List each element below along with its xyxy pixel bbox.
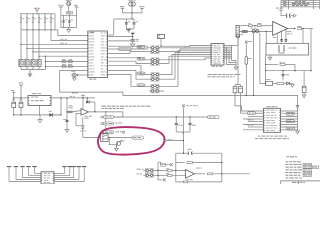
wire hang lead 2 (189, 117, 191, 123)
ROM table row 2 (286, 164, 289, 165)
junction opamp vcc (82, 97, 83, 98)
wire IC2 right pin 4 (224, 50, 232, 52)
junction sig row6 (38, 56, 39, 57)
label C7 (63, 118, 66, 121)
net flag CN-R3 (72, 166, 76, 168)
capacitor CE2 electrolytic (19, 102, 23, 107)
wire IC3 left pin 6 (243, 124, 264, 126)
label key row 2a (62, 63, 66, 66)
wire avdd left branch (113, 19, 115, 35)
junction bus b (294, 70, 295, 71)
resistor R4 pull-up (38, 17, 40, 22)
net label small box (161, 163, 166, 166)
wire low chain4 (289, 82, 292, 84)
net label inside circle (132, 136, 144, 139)
junction rail minus (66, 111, 67, 112)
label rail top (70, 95, 73, 98)
diode D3 small (81, 126, 84, 129)
wire IC3 feed A (235, 96, 264, 112)
label U5 (196, 167, 200, 170)
wire pad out r4 (161, 58, 211, 60)
wire out2 right drop (310, 29, 312, 71)
wire pull-up drop 4 (38, 14, 40, 17)
label amp supply (186, 104, 188, 107)
net label IC3 out1 (286, 112, 295, 115)
jumper pads JP8 (151, 89, 159, 93)
wire e-cap lower 2 (20, 108, 22, 115)
wire q1 branch (109, 138, 116, 145)
wire into j3 (83, 137, 101, 139)
net label pad row 3 (137, 72, 145, 75)
wire flagB stem (76, 9, 78, 15)
capacitor C below u6 b (280, 39, 283, 41)
IC3 driver (264, 108, 281, 132)
wire top conn link (160, 39, 162, 47)
wire zener top (87, 98, 89, 101)
wire diode left (45, 114, 49, 116)
heading ROM Versions (287, 156, 289, 157)
wire cap to gnd arrow (291, 15, 294, 17)
wire ce-b upper 1 (234, 85, 236, 87)
wire avdd to MCU pin (108, 34, 114, 36)
wire j5 drop (237, 37, 239, 85)
wire e-cap lead 1 (13, 98, 15, 102)
ground arrow right (294, 14, 297, 17)
wire IC2 right bundle c (232, 45, 237, 60)
wire minus input (67, 111, 72, 113)
value label R3 (34, 17, 36, 20)
wire pad out r1 (161, 44, 211, 47)
net label TP-far (208, 116, 220, 119)
wire flag vref stem (141, 11, 143, 13)
value label R4 (40, 17, 42, 20)
wire output riser x61 (60, 98, 62, 115)
wire switch column 3 (32, 22, 34, 59)
junction 158 a (157, 170, 158, 171)
arrow mark Q1 (120, 141, 122, 143)
ground buzzer (72, 78, 76, 81)
wire vert 245 (245, 43, 247, 56)
wire vert 245 low (245, 64, 247, 95)
wire cap lead lower 1 (63, 22, 65, 27)
wire cap loop right (76, 15, 78, 27)
power flag VCC top-left (35, 9, 39, 11)
value label R2 (28, 17, 30, 20)
ground q1 (115, 148, 119, 151)
junction avss (132, 36, 133, 37)
wire vert 253 (253, 33, 255, 96)
wire IC3 left pin 4 (243, 118, 264, 120)
junction amp out (221, 173, 222, 174)
label key row 1b (68, 58, 72, 61)
label IC3 left b (248, 124, 250, 127)
net label row2 (60, 38, 64, 41)
resistor R-out2 (298, 28, 302, 30)
junction q1 emitter (116, 145, 117, 146)
label osc right (137, 46, 141, 49)
wire ce-c lower (303, 93, 305, 95)
capacitor C2 vdd (68, 20, 70, 22)
jumper pads JPB1 (145, 169, 153, 173)
wire reg gnd pin (39, 106, 41, 115)
wire out to pill (105, 112, 107, 116)
voltage regulator U3 (28, 96, 51, 106)
junction q1 branch (109, 137, 110, 138)
resistor R-fb (187, 162, 193, 164)
jumper pads JP3 (151, 58, 159, 62)
wire avdd gnd drop (128, 28, 130, 31)
trimmer pair 2 (252, 29, 255, 32)
wire opt chain (266, 64, 278, 66)
title table top right (281, 0, 319, 1)
junction bus 5 (44, 13, 45, 14)
note main line1 (102, 106, 107, 107)
jumper pads JP2 (151, 50, 159, 54)
wire amp loop bottom2 (188, 181, 222, 183)
wire bus cap lower (282, 76, 284, 80)
label OPT (289, 48, 292, 49)
resistor R-comp (68, 111, 72, 113)
net label pad row 1 (137, 45, 145, 48)
wire opamp2 out (288, 28, 296, 30)
label C3 (128, 20, 130, 23)
wire rail x67 (66, 98, 68, 130)
wire amp out2 (213, 173, 251, 175)
label IC2 below (212, 66, 216, 67)
junction rail top (66, 97, 67, 98)
label TP3 right (116, 130, 120, 133)
wire IC3 rail (297, 108, 299, 131)
junction bus2 b (32, 29, 33, 30)
wire amp in lower (155, 174, 168, 176)
label R-a (248, 22, 250, 25)
wire feedback loop (76, 125, 83, 127)
buzzer BZ1 (72, 73, 76, 77)
wire pad out r7 (161, 51, 190, 87)
wire avdd bus (123, 12, 143, 14)
ground low chain (291, 84, 295, 87)
wire chain drop2 (294, 65, 296, 71)
net label IC3 out3 (286, 127, 295, 130)
wire hang lead 1 (175, 117, 177, 123)
wire diode right (53, 114, 61, 116)
junction key row 1 (45, 61, 46, 62)
label C1 (65, 18, 67, 21)
junction below u6 b (281, 41, 282, 42)
net flag CN-L2 (14, 166, 18, 168)
capacitor C-avss (131, 39, 135, 41)
title block border (280, 180, 320, 182)
junction bus2 a (26, 29, 27, 30)
wire out2 drop (302, 29, 304, 44)
wire IC2 right pin 2 (224, 46, 232, 48)
wire comp output (88, 112, 123, 117)
wire pad out r5 (161, 54, 211, 74)
wire amp loop left lowest (175, 170, 177, 182)
net label TP3 (104, 131, 114, 134)
capacitor C hang1 (175, 122, 178, 124)
junction bus2 c (38, 29, 39, 30)
wire flag down (20, 90, 22, 98)
junction comp out (94, 111, 95, 112)
option box OPT (266, 43, 309, 55)
wire vert 259 (260, 33, 266, 84)
label IC3 left a (248, 119, 252, 122)
wire vdd drop2 (69, 14, 71, 15)
wire IC3 right pin 7 (281, 126, 298, 128)
wire fb1 stem (68, 6, 70, 12)
wire amp supply drop (183, 107, 185, 153)
wire reg bottom rail (14, 114, 61, 116)
wire IC2 right pin 8 (224, 57, 232, 59)
diode D2 zener (86, 100, 89, 103)
wire ce-b lower 1 (234, 93, 236, 96)
wire amp loop right (221, 153, 223, 182)
net label pad row 2 (137, 57, 145, 60)
label hang2 (192, 124, 196, 127)
junction sig row5 (32, 51, 33, 52)
IC2 output buffer (211, 44, 224, 66)
connector J5 header (236, 26, 239, 37)
wire avdd cap bottom (126, 28, 134, 30)
net label IC3 out2 (286, 120, 295, 123)
ground IC3 (296, 131, 300, 134)
junction bus 1 (20, 13, 21, 14)
resistor R-chain (280, 64, 285, 66)
caption IC3 line1 (258, 136, 260, 137)
junction out2 a (294, 28, 295, 29)
power entry flag (12, 91, 15, 93)
label U4 line1 (84, 115, 88, 118)
wire pull-up drop 5 (44, 14, 46, 17)
wire out2 cont (302, 28, 313, 30)
resistor R-bot (183, 181, 187, 183)
wire sig row3 (21, 43, 88, 45)
net label TP2 (104, 122, 114, 125)
wire avdd cap lead 1 (125, 19, 127, 23)
wire cap lead 1 (63, 15, 65, 21)
wire amp mid link (166, 140, 184, 142)
junction hang 1 (176, 116, 177, 117)
junction bus a (265, 70, 266, 71)
test point TP3b symbol (122, 131, 124, 133)
value label R1 (22, 17, 24, 20)
junction bus2 e (50, 29, 51, 30)
wire sig row4 (27, 47, 88, 49)
junction cap bus (131, 18, 132, 19)
wire amp in upper2 (172, 170, 185, 173)
wire hang lower 2 (189, 125, 191, 132)
net flag CN-R5 (82, 166, 86, 168)
net flag CN-R2 (68, 166, 72, 168)
label key row 2b (68, 63, 72, 66)
ROM table row 6 (286, 175, 289, 176)
test point TP3 symbol (101, 131, 103, 133)
junction x61 bottom (60, 114, 61, 115)
wire pad out r2 (161, 46, 211, 49)
junction bus 4 (38, 13, 39, 14)
connector CN1 box (41, 172, 54, 184)
wire pad out r4b (161, 56, 211, 63)
label C-avss (136, 38, 139, 41)
wire sig VDDloop (21, 30, 88, 36)
wire bus right drop (54, 14, 56, 30)
wire buzzer loop (60, 71, 298, 107)
wire net 158 right (165, 164, 170, 166)
junction 253 low (253, 95, 254, 96)
wire reg output (51, 97, 95, 99)
wire amp loop top2 (192, 152, 222, 154)
wire pull-up drop 3 (32, 14, 34, 17)
wire key row 1 (46, 61, 88, 63)
wire bead drop (131, 6, 133, 19)
wire net 158 top (158, 162, 161, 165)
label U5 below (186, 178, 189, 181)
net flag right of box (170, 163, 173, 166)
junction bus 2 (26, 13, 27, 14)
wire IC3 left pin 3 (248, 116, 264, 118)
resistor R5 pull-up (44, 17, 46, 22)
wire bus 70 (266, 70, 311, 72)
wire amp mid (176, 161, 185, 163)
switch SW4 (37, 60, 41, 67)
wire amp loop top (176, 152, 189, 154)
wire between Ra Rb (252, 25, 257, 27)
wire IC3 right pin 2 (281, 112, 298, 114)
junction sig row3 (20, 44, 21, 45)
ROM table row 3 (286, 167, 289, 168)
wire pull-up drop 2 (26, 14, 28, 17)
wire loop left lower (175, 162, 177, 170)
wire switch column 2 (26, 22, 28, 59)
junction e-cap top 2 (20, 97, 21, 98)
wire net 158 bottom (158, 175, 163, 180)
wire reg gnd stem (39, 115, 41, 120)
label IC2 pin names (213, 44, 216, 47)
resistor R1 pull-up (20, 17, 22, 22)
resistor key series B1 (68, 61, 72, 63)
wire low chain gnd stem (292, 82, 294, 85)
label U3 name (31, 96, 34, 99)
label C-bus (285, 73, 289, 76)
wire IC3 feed B (241, 96, 248, 114)
wire IC3 feed B2 (255, 112, 263, 114)
wire plus branch down (265, 32, 267, 44)
capacitor C3 avdd (125, 22, 128, 24)
wire switch bottom 4 (38, 67, 40, 70)
label F1 top (248, 40, 252, 43)
value label R6 (52, 17, 54, 20)
wire buzzer gnd stem (73, 76, 75, 79)
wire Rb to opamp (261, 25, 273, 27)
ground rail arrow (65, 130, 69, 133)
label amp mid (167, 138, 171, 141)
junction key row 2 (45, 66, 46, 67)
wire u6 below b (281, 31, 283, 39)
label C4 (136, 20, 138, 23)
wire avdd cap lead lower 1 (125, 24, 127, 29)
wire hang gnd drop (182, 132, 184, 134)
resistor key series A2 (62, 65, 66, 67)
wire IC3 right pin 3 (281, 116, 298, 118)
op-amp U4 comparator (81, 109, 88, 116)
wire hang bottom (176, 131, 190, 133)
jumper pads JP6 (151, 77, 159, 81)
power flag VREF (140, 7, 144, 9)
fuse F1 (245, 57, 248, 65)
annotation magenta ellipse (98, 127, 165, 154)
ground IC2 arrow (234, 67, 238, 70)
connector J2 small (158, 35, 165, 39)
wire ce-b top link (235, 84, 241, 86)
value label R5 (46, 17, 48, 20)
wire e-cap lead 2 (20, 98, 22, 102)
wire cap lead 2 (69, 15, 71, 21)
net flag bottom (163, 178, 166, 181)
wire zener out (89, 101, 95, 103)
wire avss pin (108, 36, 133, 38)
wire IC2 right bundle b (229, 51, 236, 63)
thermistor RT1 (236, 35, 239, 38)
label U3 above (32, 92, 37, 95)
label JPB2 (137, 173, 139, 176)
wire ce-b lower 2 (240, 93, 242, 96)
resistor R-low (277, 83, 284, 85)
wire MCU pin r1 (108, 46, 150, 48)
wire minus input2 (72, 111, 81, 112)
power flag opamp2 (279, 9, 283, 11)
label D3 (80, 130, 82, 133)
junction bus c (310, 70, 311, 71)
wire low chain3 (284, 82, 287, 84)
wire tp chain a (105, 119, 107, 123)
resistor key series B2 (68, 65, 72, 67)
switch SW3 (31, 60, 35, 67)
resistor R3 pull-up (32, 17, 34, 22)
junction e-cap bot 1 (13, 114, 14, 115)
label hang1 (178, 124, 180, 127)
wire feedback drop (82, 122, 84, 126)
wire buzzer left lead (71, 74, 73, 76)
wire loop to note (82, 117, 84, 122)
diode D1 (49, 113, 52, 117)
ground vdd arrow (67, 30, 71, 33)
connector J3 small (101, 134, 109, 142)
capacitor C-dec2 (286, 13, 288, 18)
junction top conn (160, 46, 161, 47)
resistor R2 pull-up (26, 17, 28, 22)
junction chain left (265, 83, 266, 84)
wire switch column 4 (38, 22, 40, 59)
label R-b (257, 22, 261, 25)
relay K1 small box (266, 81, 273, 85)
net label row3 (60, 42, 64, 45)
jumper pads JP1 (151, 46, 159, 50)
wire IC2 right pin 5 (224, 52, 232, 54)
wire opamp2 plus in (239, 31, 273, 33)
junction chain63 (265, 64, 266, 65)
wire q1 gnd stem (115, 145, 117, 149)
label U6 line1 (287, 30, 291, 33)
test point TP1 symbol (101, 116, 103, 118)
wire cap loop bottom (61, 27, 77, 29)
label TP2 right (115, 122, 117, 125)
label IC3 pins (266, 109, 269, 112)
label IC1 part below (89, 79, 92, 80)
label U3 inner (31, 100, 34, 101)
wire opamp vcc (82, 97, 84, 108)
wire pad out r3 (161, 49, 211, 52)
